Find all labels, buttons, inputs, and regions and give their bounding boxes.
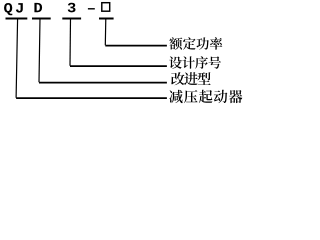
callout line to rated power <box>105 45 167 47</box>
letter J <box>16 3 23 12</box>
vertical line from box <box>104 18 107 45</box>
bar under D <box>32 18 51 20</box>
label rated power 额定功率 <box>169 37 182 50</box>
power rating placeholder box <box>102 3 110 12</box>
callout line to starter <box>16 97 167 99</box>
letter Q <box>4 3 12 15</box>
callout line to improved type <box>39 82 167 84</box>
vertical line from 3 <box>69 18 72 66</box>
vertical line from QJ <box>16 18 18 98</box>
hyphen separator <box>88 8 95 9</box>
callout line to design serial <box>70 65 167 67</box>
vertical line from D <box>39 18 40 82</box>
letter D <box>34 3 42 12</box>
bar under 3 <box>62 18 81 20</box>
label voltage-reducing starter 减压起动器 <box>169 90 182 103</box>
digit 3 <box>68 3 76 13</box>
label improved type 改进型 <box>171 72 184 85</box>
bar under box <box>99 18 114 20</box>
label design serial 设计序号 <box>169 56 182 68</box>
bar under QJ <box>6 18 28 20</box>
